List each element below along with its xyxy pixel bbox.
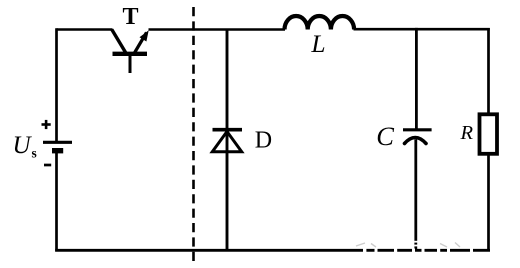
svg-text:T: T bbox=[122, 4, 138, 30]
svg-text:D: D bbox=[255, 127, 272, 153]
wire bottom bbox=[55, 249, 490, 252]
battery Us short plate bbox=[52, 148, 63, 153]
battery Us long plate bbox=[43, 141, 72, 144]
wire left vertical upper bbox=[55, 28, 58, 142]
plus sign bbox=[42, 120, 51, 129]
svg-text:R: R bbox=[460, 122, 474, 144]
svg-text:C: C bbox=[376, 121, 394, 151]
wire left vertical lower bbox=[55, 151, 58, 252]
capacitor C curved plate bbox=[405, 138, 427, 144]
transistor Q1 base lead bbox=[129, 56, 132, 74]
wire right vertical upper bbox=[487, 28, 490, 114]
svg-text:U: U bbox=[13, 132, 33, 159]
watermark remnant gaps bbox=[363, 241, 473, 253]
transistor Q1 base bar bbox=[113, 52, 148, 56]
wire top right segment bbox=[354, 28, 490, 31]
capacitor C branch wire lower bbox=[414, 140, 417, 252]
svg-text:L: L bbox=[310, 29, 325, 58]
wire top-left segment bbox=[57, 28, 113, 31]
dashed boundary line bbox=[192, 7, 195, 266]
wire top middle segment bbox=[149, 28, 286, 31]
capacitor C top plate bbox=[403, 128, 432, 131]
diode D triangle bbox=[212, 132, 241, 152]
minus sign bbox=[44, 164, 51, 167]
transistor Q1 emitter arrowhead bbox=[140, 30, 149, 41]
wire right vertical lower bbox=[487, 154, 490, 252]
transistor Q1 collector diagonal bbox=[112, 30, 126, 54]
capacitor C branch wire upper bbox=[415, 28, 418, 129]
diode D branch wire bbox=[226, 29, 229, 252]
transistor Q1 emitter line bbox=[134, 33, 147, 55]
svg-text:s: s bbox=[32, 146, 37, 161]
diode D cathode bar bbox=[213, 128, 243, 132]
inductor L bbox=[285, 16, 355, 30]
resistor R box bbox=[480, 114, 498, 154]
watermark faint marks bbox=[356, 243, 460, 248]
